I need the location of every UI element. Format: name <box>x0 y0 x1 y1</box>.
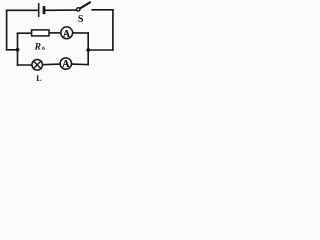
wire lamp to ammeter A2 <box>43 63 61 66</box>
wire ammeter A2 to inner right vertical <box>72 63 89 66</box>
svg-text:S: S <box>78 14 84 25</box>
lamp L cross diagonal 2 <box>34 61 41 68</box>
wire right stub to junction <box>88 49 113 51</box>
ammeter A2 circle <box>60 58 71 69</box>
svg-text:R: R <box>34 42 41 52</box>
wire top-left horizontal <box>7 9 38 11</box>
lamp L circle <box>32 60 43 71</box>
svg-text:A: A <box>62 59 70 70</box>
svg-text:L: L <box>36 74 41 83</box>
resistor R0 body <box>32 30 49 36</box>
switch S blade <box>80 2 90 8</box>
wire between battery and switch <box>45 9 76 11</box>
battery cell: short thick plate <box>43 6 46 14</box>
wire inner left vertical <box>17 33 19 65</box>
lamp L cross diagonal 1 <box>34 61 41 68</box>
svg-text:0: 0 <box>42 46 45 52</box>
svg-text:A: A <box>63 29 71 40</box>
wire right vertical <box>112 10 114 50</box>
wire left stub to junction <box>7 49 18 51</box>
wire switch to top-right corner <box>92 9 113 11</box>
wire ammeter A1 to inner right vertical <box>73 32 88 34</box>
node junction right with dot <box>86 48 90 52</box>
ammeter A1 circle <box>61 27 73 39</box>
wire resistor to ammeter A1 <box>49 32 61 34</box>
wire bottom branch left <box>18 64 33 66</box>
switch S pivot circle <box>77 8 80 11</box>
wire middle branch left <box>18 32 32 34</box>
node junction left with dot <box>16 48 20 52</box>
battery cell: long plate <box>38 3 40 17</box>
wire inner right vertical <box>87 33 89 65</box>
wire left vertical <box>6 10 8 50</box>
